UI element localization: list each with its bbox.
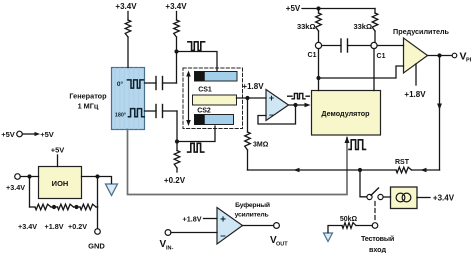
svg-text:RST: RST: [395, 159, 410, 166]
svg-text:CS2: CS2: [197, 108, 211, 115]
svg-text:ИОН: ИОН: [52, 179, 69, 188]
svg-text:+3.4V: +3.4V: [433, 194, 455, 203]
svg-text:+5V: +5V: [40, 130, 54, 139]
svg-text:+3.4V: +3.4V: [6, 183, 25, 192]
svg-text:Демодулятор: Демодулятор: [321, 109, 370, 118]
svg-text:+5V: +5V: [51, 146, 65, 155]
svg-text:33kΩ: 33kΩ: [353, 22, 372, 31]
svg-text:Буферный: Буферный: [235, 201, 270, 209]
svg-text:GND: GND: [88, 242, 105, 251]
svg-text:+3.4V: +3.4V: [115, 2, 137, 11]
svg-text:50kΩ: 50kΩ: [340, 216, 358, 223]
svg-text:+1.8V: +1.8V: [45, 222, 64, 231]
svg-text:Тестовый: Тестовый: [361, 234, 394, 243]
svg-text:+1.8V: +1.8V: [183, 215, 202, 224]
svg-text:+: +: [269, 93, 274, 103]
svg-text:+5V: +5V: [286, 4, 301, 13]
svg-text:0°: 0°: [117, 80, 124, 88]
svg-text:вход: вход: [369, 245, 387, 253]
svg-text:+1.8V: +1.8V: [242, 82, 264, 91]
svg-text:1 МГц: 1 МГц: [78, 102, 99, 111]
svg-text:+3.4V: +3.4V: [18, 222, 37, 231]
svg-text:Генератор: Генератор: [69, 92, 107, 101]
svg-text:C1: C1: [308, 52, 317, 59]
svg-text:PR: PR: [466, 58, 471, 64]
svg-text:CS1: CS1: [198, 87, 212, 94]
svg-text:+: +: [220, 215, 226, 226]
svg-text:усилитель: усилитель: [235, 212, 269, 219]
svg-text:–: –: [269, 110, 274, 120]
svg-text:Предусилитель: Предусилитель: [393, 27, 450, 36]
svg-text:C1: C1: [377, 53, 386, 60]
svg-text:+0.2V: +0.2V: [164, 176, 186, 185]
svg-text:+0.2V: +0.2V: [68, 222, 87, 231]
svg-text:+1.8V: +1.8V: [404, 90, 426, 99]
svg-text:33kΩ: 33kΩ: [297, 22, 316, 31]
svg-text:+3.4V: +3.4V: [165, 2, 187, 11]
svg-text:OUT: OUT: [276, 242, 288, 248]
svg-text:–: –: [220, 231, 226, 242]
svg-text:3МΩ: 3МΩ: [253, 142, 269, 149]
svg-text:+5V: +5V: [1, 130, 15, 139]
svg-text:IN-: IN-: [166, 246, 174, 252]
svg-text:180°: 180°: [115, 113, 126, 119]
